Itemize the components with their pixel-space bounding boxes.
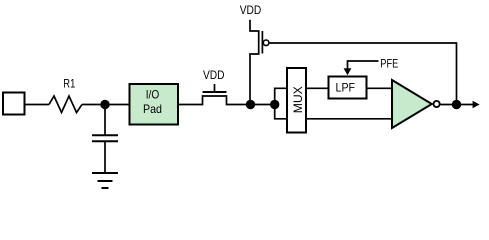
svg-text:VDD: VDD [240,3,262,17]
svg-text:R1: R1 [63,77,75,91]
svg-text:Pad: Pad [143,102,162,116]
svg-text:LPF: LPF [336,80,356,94]
svg-text:I/O: I/O [146,88,160,102]
svg-text:PFE: PFE [380,57,398,71]
svg-text:MUX: MUX [291,86,305,113]
svg-text:VDD: VDD [203,68,225,82]
